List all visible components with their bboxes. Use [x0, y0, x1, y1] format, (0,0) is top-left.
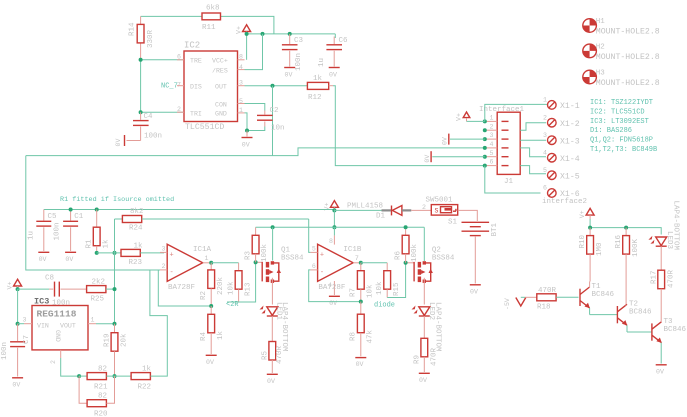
svg-text:BC846: BC846 [664, 326, 687, 334]
V+ supply symbol (J1 pin1) [456, 112, 470, 121]
svg-text:1k: 1k [134, 243, 144, 251]
junction dot R23 net left [113, 251, 117, 255]
svg-text:1: 1 [490, 115, 494, 122]
svg-text:C2: C2 [270, 107, 279, 115]
op-amp IC1A [160, 244, 212, 292]
svg-text:0V: 0V [206, 359, 214, 366]
capacitor C7 [1, 324, 31, 389]
J1 contact pin 5 [485, 150, 509, 157]
resistor R16 [615, 228, 640, 306]
ground 0V under IC2 [242, 131, 253, 149]
svg-text:10k: 10k [376, 281, 384, 295]
transistor T2 BC846 [617, 300, 652, 332]
svg-text:TRE: TRE [190, 58, 202, 65]
wire V+ rail left (IC1A supply rail) [44, 209, 335, 211]
svg-text:X1-2: X1-2 [560, 120, 580, 129]
svg-text:R24: R24 [129, 224, 143, 232]
wire R23/pin3 net [97, 252, 121, 254]
resistor R15 [376, 263, 401, 298]
capacitor C2 [257, 107, 285, 133]
pad X1-2 [543, 114, 580, 129]
capacitor C5 [28, 210, 58, 263]
svg-text:CON: CON [215, 102, 227, 109]
junction dot OUT [271, 84, 275, 88]
capacitor C4 [127, 112, 163, 140]
IC2 TLC551CD body [177, 41, 245, 133]
svg-text:R13: R13 [245, 282, 253, 296]
svg-text:1M0: 1M0 [596, 242, 604, 256]
wire IC1B pin8 to rail [333, 227, 335, 235]
svg-text:R17: R17 [651, 270, 659, 284]
J1 contact pin 6 [485, 159, 509, 166]
svg-text:C8: C8 [45, 275, 54, 283]
svg-text:C5: C5 [48, 213, 58, 221]
resistor R13 [228, 263, 253, 302]
transistor Q2 BSS84 [414, 247, 455, 305]
svg-text:2: 2 [422, 204, 426, 211]
wire R24 net down to IC1B pin5 [309, 219, 311, 252]
junction dot IC1A out [209, 261, 213, 265]
svg-text:D1: D1 [376, 213, 386, 221]
wire left rail (OUT to IC1A pin2) [26, 156, 160, 270]
svg-text:R3: R3 [245, 250, 253, 260]
wire V+ to C8 [18, 288, 49, 290]
svg-text:6: 6 [543, 185, 547, 192]
svg-text:470R: 470R [276, 345, 284, 364]
wire /RES riser [245, 34, 263, 70]
resistor R12 [307, 75, 328, 102]
junction dot VIN [16, 322, 20, 326]
svg-text:0V: 0V [285, 72, 293, 79]
svg-text:10n: 10n [271, 125, 285, 133]
pad X1-6 [543, 185, 580, 200]
svg-text:S1: S1 [448, 219, 458, 227]
svg-text:C4: C4 [144, 113, 154, 121]
svg-text:IC3: LT3092EST: IC3: LT3092EST [590, 118, 649, 126]
wire long OUT net to J1 pin4 [26, 148, 485, 156]
svg-text:GND: GND [215, 111, 227, 118]
svg-text:4: 4 [543, 149, 547, 156]
resistor R8 [350, 302, 375, 357]
ground 0V under C3 [284, 68, 295, 79]
svg-text:IC3: IC3 [34, 297, 49, 307]
svg-text:-: - [320, 269, 324, 277]
svg-text:1u: 1u [28, 231, 36, 240]
V+ supply symbol (right) [579, 208, 594, 227]
svg-text:X1-5: X1-5 [560, 172, 580, 181]
junction dot TRI/C4 [139, 110, 143, 114]
resistor R24 [122, 208, 308, 232]
ground 0V under T3 [656, 365, 667, 376]
junction dot IC1B out [359, 261, 363, 265]
resistor R4 [200, 306, 225, 354]
wire R22 right up to pin2 net [150, 270, 167, 376]
capacitor C3 [282, 34, 304, 71]
junction dot C1 top [69, 208, 73, 212]
svg-text:TRI: TRI [190, 111, 202, 118]
svg-text:R10: R10 [579, 234, 587, 248]
wire D1 to switch [411, 209, 431, 211]
resistor R18 [537, 287, 579, 312]
svg-text:0V: 0V [65, 256, 73, 263]
junction dot R16 top [624, 226, 628, 230]
ground 0V under IC1B [329, 296, 340, 307]
wire T2 emitter to T3 base [627, 331, 652, 333]
svg-text:Q1: Q1 [281, 247, 291, 255]
junction dot R3 bottom [254, 260, 258, 264]
resistor R6 [395, 227, 420, 262]
resistor R22 [131, 366, 151, 392]
mount hole H1 [583, 18, 660, 37]
svg-text:1k: 1k [103, 239, 111, 249]
wire switch to battery [458, 210, 478, 221]
svg-text:2: 2 [543, 114, 547, 121]
svg-text:1k: 1k [313, 75, 323, 83]
wire OUT down to long net [272, 86, 274, 156]
svg-text:MOUNT-HOLE2.8: MOUNT-HOLE2.8 [596, 28, 660, 37]
mount hole H3 [583, 70, 660, 89]
wire IC1A out to R13 [211, 262, 238, 264]
J1 contact pin 1 [485, 115, 509, 122]
svg-text:100k: 100k [411, 243, 419, 262]
svg-text:TLC551CD: TLC551CD [185, 123, 224, 132]
svg-text:0V: 0V [419, 377, 427, 384]
wire right V+ rail [590, 228, 661, 235]
wire X1-1 pad [485, 104, 547, 121]
wire GND pin to R21 [61, 358, 79, 376]
svg-text:0V: 0V [39, 256, 47, 263]
svg-text:T1,T2,T3: BC849B: T1,T2,T3: BC849B [590, 146, 657, 154]
svg-text:R15: R15 [393, 282, 401, 296]
svg-text:C7: C7 [23, 335, 31, 344]
wire VOUT to R19 [96, 323, 115, 325]
wire rail corner into C6 [334, 34, 336, 38]
V+ supply symbol (IC2) [236, 25, 251, 60]
wire T1 emitter to T2 base [590, 314, 618, 316]
svg-text:100n: 100n [1, 342, 9, 360]
svg-text:0V: 0V [424, 155, 431, 163]
svg-text:R6: R6 [395, 250, 403, 260]
battery BT1 [462, 222, 500, 283]
svg-text:R7: R7 [350, 288, 358, 297]
transistor Q1 BSS84 [262, 247, 304, 305]
resistor R7 [350, 263, 375, 302]
svg-text:Q2: Q2 [432, 247, 441, 255]
svg-text:LAP4-BOTTOM: LAP4-BOTTOM [672, 201, 680, 251]
wire Q1 gate net [227, 262, 256, 302]
svg-text:R19: R19 [104, 333, 112, 347]
-5V supply symbol [504, 297, 537, 310]
svg-text:S: S [435, 208, 439, 215]
svg-text:6: 6 [312, 263, 316, 270]
svg-text:BSS84: BSS84 [432, 255, 455, 263]
svg-text:82: 82 [98, 393, 107, 401]
junction dot D1 node [332, 208, 336, 212]
wire R12 right down to J1 pin6 [329, 85, 333, 87]
svg-text:T2: T2 [629, 300, 638, 308]
svg-text:100n: 100n [52, 300, 70, 308]
wire R14 bottom to TRI [141, 60, 184, 112]
svg-text:2: 2 [490, 123, 494, 130]
svg-text:/RES: /RES [212, 68, 228, 75]
svg-text:NC_7: NC_7 [161, 83, 178, 91]
junction dot R21 left [77, 374, 81, 378]
svg-text:0V: 0V [12, 381, 20, 388]
op-amp IC1B [310, 235, 362, 295]
svg-text:R5: R5 [262, 350, 270, 360]
wire X1-4 pad [520, 148, 546, 157]
ground 0V under C6 [329, 68, 340, 79]
resistor R10 [579, 228, 604, 282]
J1 contact pin 4 [485, 141, 509, 148]
svg-text:8: 8 [329, 238, 333, 245]
svg-text:X1-4: X1-4 [560, 155, 580, 164]
svg-text:0V: 0V [329, 300, 337, 307]
resistor R5 [262, 342, 285, 374]
ground 0V rotated (J1 pin3) [442, 134, 485, 145]
ground 0V rotated (C4) [115, 135, 125, 147]
svg-text:1k: 1k [217, 330, 225, 340]
svg-text:100n: 100n [295, 53, 303, 71]
svg-text:T3: T3 [664, 318, 674, 326]
svg-text:LAP4-BOTTOM: LAP4-BOTTOM [280, 302, 288, 352]
junction dot /RES riser [261, 32, 265, 36]
svg-text:REG1118: REG1118 [37, 309, 77, 320]
svg-text:R14: R14 [129, 22, 137, 36]
junction dots J1 pins [483, 119, 487, 123]
svg-text:5: 5 [543, 167, 547, 174]
svg-text:H3: H3 [596, 70, 606, 78]
svg-text:1: 1 [91, 317, 95, 324]
svg-text:20k: 20k [121, 333, 129, 347]
svg-text:BC846: BC846 [629, 308, 652, 316]
svg-text:1: 1 [543, 97, 547, 104]
svg-text:C1: C1 [74, 213, 84, 221]
pad X1-5 [543, 167, 580, 182]
wire X1-2 pad [520, 123, 546, 131]
svg-text:R12: R12 [308, 94, 322, 102]
svg-text:DIS: DIS [190, 84, 202, 91]
wire CON to C2 [245, 104, 265, 111]
svg-text:6k8: 6k8 [206, 5, 220, 13]
svg-text:interface2: interface2 [542, 198, 587, 206]
wire IC1B pin6 to feedback [309, 270, 361, 302]
junction dot R10 top [588, 226, 592, 230]
resistor R3 [245, 227, 270, 262]
transistor T1 BC846 [580, 282, 615, 315]
svg-text:100n: 100n [54, 222, 62, 240]
svg-text:0V: 0V [242, 142, 250, 149]
svg-text:Q1,Q2: FDN5618P: Q1,Q2: FDN5618P [590, 137, 653, 145]
resistor R19 [104, 324, 129, 376]
resistor R21 [79, 366, 131, 392]
svg-text:10k: 10k [367, 284, 375, 298]
resistor R17 [651, 269, 676, 319]
wire GND to ground [245, 113, 248, 131]
capacitor C8 [45, 275, 87, 308]
junction dot rail R6 [404, 225, 408, 229]
junction dot VOUT [113, 322, 117, 326]
transistor T3 BC846 [652, 318, 687, 364]
svg-text:V+: V+ [579, 210, 586, 218]
svg-text:1k: 1k [142, 366, 152, 374]
resistor R20 [79, 376, 114, 417]
svg-text:470R: 470R [538, 287, 557, 295]
wire R24 branch vertical [114, 219, 116, 324]
junction dot C3 top [288, 32, 292, 36]
V+ supply symbol (IC3) [7, 279, 22, 289]
svg-text:1u: 1u [318, 58, 326, 67]
resistor R9 [414, 338, 439, 372]
svg-text:V+: V+ [7, 282, 14, 290]
svg-text:Interface1: Interface1 [479, 106, 525, 114]
svg-text:BT1: BT1 [491, 222, 499, 236]
ground 0V under R8 [355, 358, 366, 369]
junction dot TRE [139, 58, 143, 62]
svg-text:3: 3 [162, 245, 166, 252]
wire VIN [18, 323, 24, 325]
svg-text:C6: C6 [339, 37, 349, 45]
svg-text:470R: 470R [668, 269, 676, 288]
LED LED2 [412, 302, 442, 352]
svg-text:220k: 220k [217, 276, 225, 295]
svg-text:MOUNT-HOLE2.8: MOUNT-HOLE2.8 [596, 53, 660, 62]
wire rail down to Q1 drain [272, 227, 274, 260]
svg-text:VIN: VIN [37, 322, 49, 329]
svg-text:OUT: OUT [215, 84, 227, 91]
svg-text:SW5001: SW5001 [426, 197, 454, 205]
svg-text:BC846: BC846 [592, 291, 615, 299]
svg-text:R23: R23 [129, 259, 143, 267]
junction dot R7/R8 [359, 300, 363, 304]
svg-text:R9: R9 [414, 355, 422, 364]
wire J1 pin1 [467, 120, 485, 122]
pad X1-3 [543, 132, 580, 147]
svg-text:0V: 0V [267, 378, 275, 385]
svg-text:3: 3 [23, 317, 27, 324]
svg-text:MOUNT-HOLE2.8: MOUNT-HOLE2.8 [596, 79, 660, 88]
svg-text:10k: 10k [228, 281, 236, 295]
svg-text:82: 82 [98, 366, 107, 374]
svg-text:2: 2 [162, 263, 166, 270]
svg-text:IC2: IC2 [184, 41, 200, 51]
junction dot feedback node [209, 304, 213, 308]
wire Q2 gate net [387, 263, 405, 298]
svg-text:7: 7 [355, 255, 359, 262]
diode D1 PMLL4158 [347, 203, 411, 221]
svg-text:BA728F: BA728F [168, 284, 195, 292]
svg-text:IC1B: IC1B [343, 246, 362, 254]
svg-text:IC1A: IC1A [193, 246, 212, 254]
IC3 REG1118 body [23, 297, 97, 365]
pad X1-1 [543, 97, 580, 112]
svg-text:5: 5 [312, 245, 316, 252]
ground 0V under R4 [206, 355, 217, 366]
junction dot rail R3 [271, 225, 275, 229]
svg-text:H1: H1 [596, 18, 606, 26]
svg-text:470R: 470R [431, 347, 439, 366]
svg-text:R4: R4 [200, 331, 208, 341]
svg-text:100K: 100K [632, 238, 640, 257]
J1 contact pin 2 [485, 123, 509, 130]
svg-text:R21: R21 [94, 384, 108, 392]
svg-text:2k2: 2k2 [92, 279, 106, 287]
resistor R25 [87, 279, 115, 304]
resistor R1 [86, 210, 111, 253]
resistor R14 [129, 16, 156, 59]
svg-text:X1-1: X1-1 [560, 102, 580, 111]
ground 0V under R9 [419, 373, 430, 384]
svg-text:1: 1 [205, 255, 209, 262]
svg-text:H2: H2 [596, 43, 605, 51]
svg-text:R25: R25 [91, 296, 105, 304]
capacitor C1 [54, 210, 84, 263]
svg-text:C3: C3 [294, 37, 304, 45]
svg-text:BA728F: BA728F [318, 284, 345, 292]
parts list text [590, 99, 657, 154]
junction dot IC1B supply [332, 225, 336, 229]
svg-text:BSS84: BSS84 [281, 255, 304, 263]
resistor R2 [200, 263, 225, 306]
svg-text:47k: 47k [367, 329, 375, 343]
switch S1 SW5001 [422, 197, 458, 227]
svg-text:T1: T1 [592, 283, 602, 291]
svg-text:100n: 100n [144, 133, 162, 141]
connector J1 body [497, 112, 520, 186]
wire V+ node down [333, 210, 335, 228]
svg-text:V+: V+ [456, 113, 463, 121]
svg-text:8k2: 8k2 [130, 208, 144, 216]
svg-text:PMLL4158: PMLL4158 [347, 203, 383, 211]
junction dot R1 bottom [95, 251, 99, 255]
svg-text:R2: R2 [200, 291, 208, 300]
LED LED1 [260, 302, 289, 352]
resistor R23 [121, 243, 164, 268]
wire V+ rail y34 [247, 33, 336, 35]
svg-text:D1: BAS286: D1: BAS286 [590, 127, 632, 135]
svg-text:100k: 100k [261, 243, 269, 262]
svg-text:R16: R16 [615, 234, 623, 248]
wire R11 right to V+ rail corner [220, 16, 274, 34]
svg-text:IC2: TLC551CD: IC2: TLC551CD [590, 108, 645, 116]
svg-text:GND: GND [54, 330, 61, 342]
svg-text:V+: V+ [236, 26, 243, 34]
svg-text:5: 5 [490, 150, 494, 157]
J1 contact pin 3 [485, 132, 509, 139]
svg-text:R18: R18 [537, 304, 551, 312]
ground 0V under R5 [267, 374, 278, 385]
svg-text:-: - [170, 269, 174, 277]
svg-text:3: 3 [490, 132, 494, 139]
svg-text:R11: R11 [202, 24, 216, 32]
svg-text:+: + [320, 251, 324, 259]
svg-text:0V: 0V [470, 289, 478, 296]
svg-text:0V: 0V [656, 368, 664, 375]
wire X1-3 pad [520, 139, 546, 141]
wire OUT net to R12 [245, 85, 308, 87]
svg-text:R1: R1 [86, 239, 94, 249]
wire IC1B out to R15 [361, 262, 387, 264]
mount hole H2 [583, 43, 660, 62]
wire V+ down to VIN [17, 289, 19, 324]
pad X1-4 [543, 149, 580, 164]
wire pin2 jog down to feedback node [158, 270, 211, 306]
svg-text:R22: R22 [138, 384, 152, 392]
wire C2 bottom [247, 127, 265, 131]
svg-text:0V: 0V [356, 361, 364, 368]
junction dot V+ stem [245, 32, 249, 36]
wire TRE net [141, 59, 184, 61]
